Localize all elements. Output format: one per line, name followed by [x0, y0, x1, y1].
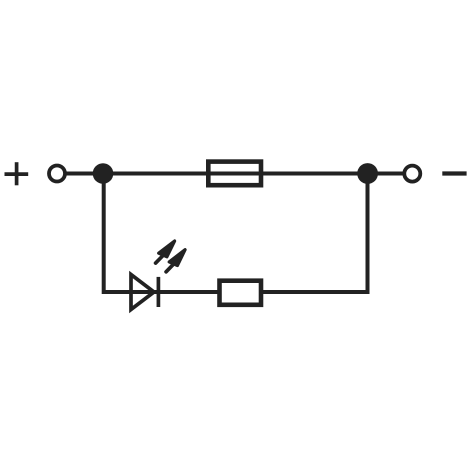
node: left junction dot	[93, 163, 114, 184]
wire: left junction to right junction (through fuse)	[103, 172, 368, 176]
wire: left vertical drop and bottom run to LED	[104, 178, 160, 292]
LED D : cathode bar	[157, 277, 161, 307]
wire: right junction to right terminal	[368, 172, 410, 176]
node: right junction dot	[357, 163, 378, 184]
left terminal circle (+)	[49, 166, 65, 182]
resistor R	[220, 281, 262, 305]
LED D : light emission arrow 1	[156, 241, 175, 263]
wire: LED cathode to resistor	[160, 290, 225, 294]
LED D : light emission arrow 2	[166, 250, 185, 272]
wire: left terminal to left junction	[60, 172, 103, 176]
LED D : diode triangle (anode)	[131, 275, 154, 310]
minus symbol (negative terminal marking)	[442, 171, 466, 175]
right terminal circle (-)	[404, 166, 420, 182]
plus symbol (positive terminal marking)	[5, 162, 29, 185]
fuse F	[208, 162, 261, 186]
wire: resistor to right vertical rise	[258, 178, 368, 292]
